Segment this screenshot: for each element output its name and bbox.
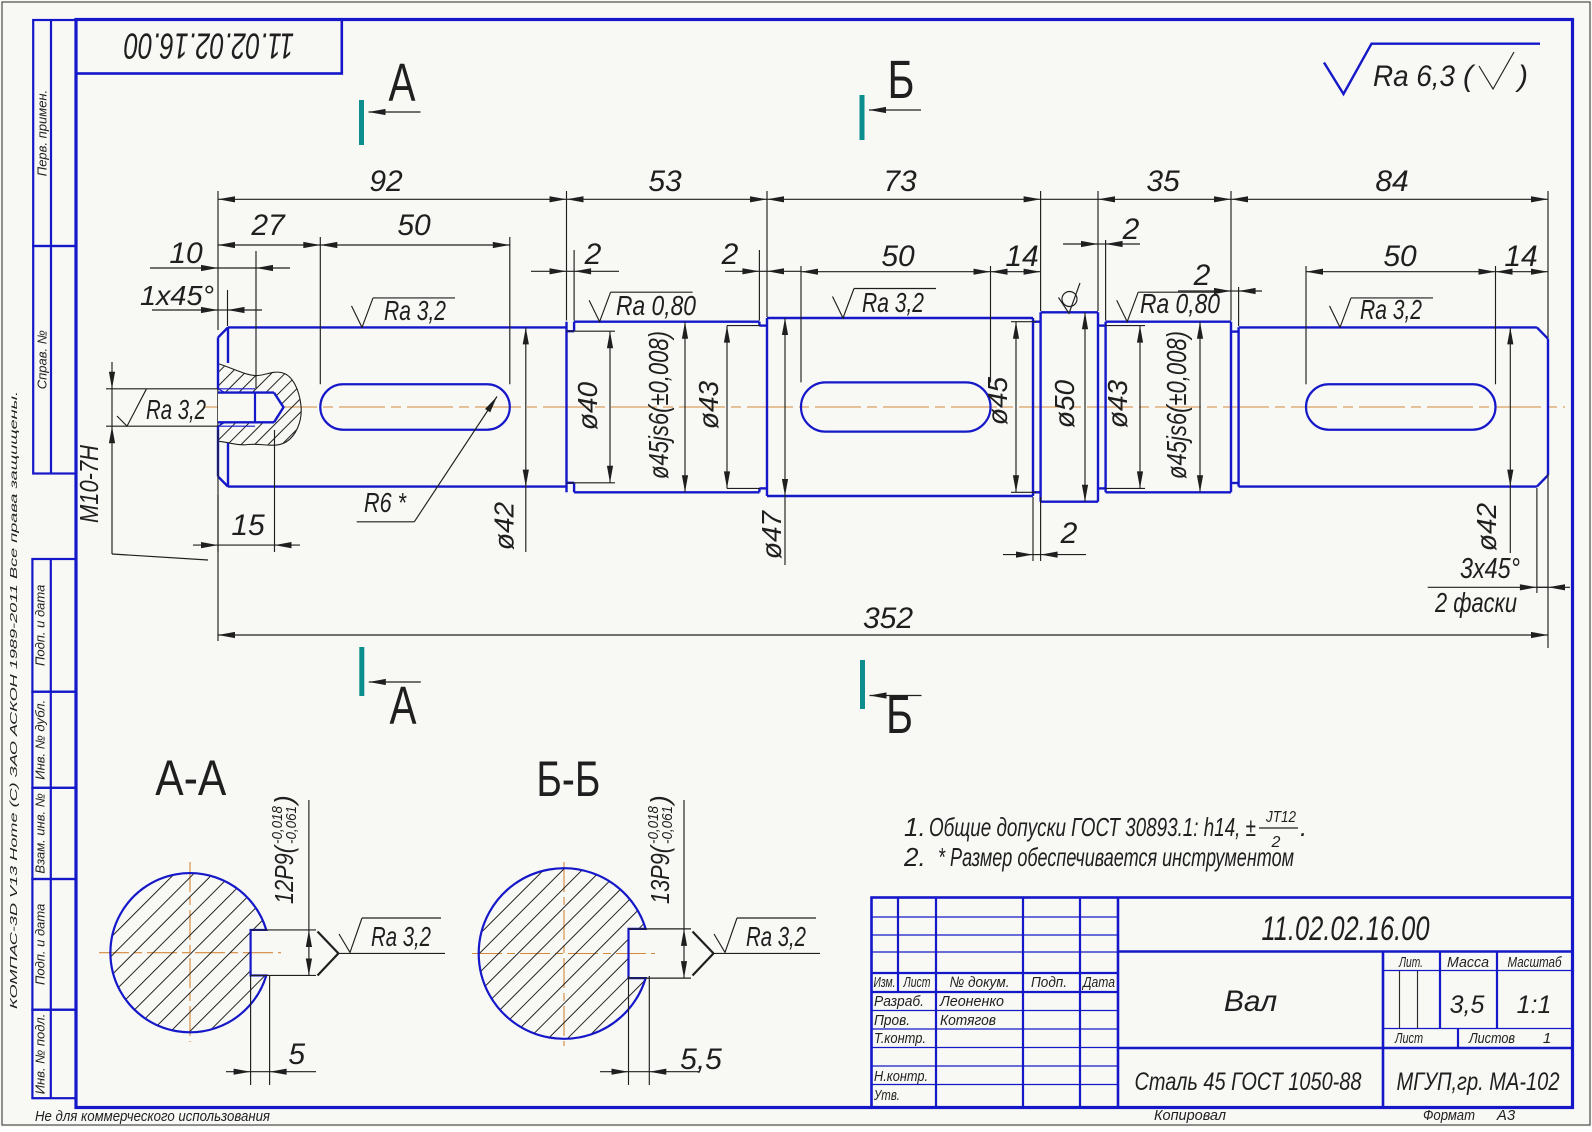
svg-text:Разраб.: Разраб. — [874, 993, 924, 1010]
svg-text:Б-Б: Б-Б — [536, 751, 600, 807]
svg-text:Ra 3,2: Ra 3,2 — [146, 394, 206, 425]
svg-text:84: 84 — [1375, 165, 1408, 198]
svg-text:М10-7Н: М10-7Н — [74, 445, 104, 523]
svg-text:2 фаски: 2 фаски — [1434, 587, 1517, 618]
svg-text:ø50: ø50 — [1049, 379, 1080, 428]
svg-text:2: 2 — [1060, 517, 1078, 550]
svg-text:50: 50 — [397, 209, 431, 242]
svg-text:1:1: 1:1 — [1517, 991, 1552, 1019]
svg-text:2: 2 — [1122, 213, 1140, 246]
svg-text:МГУП,гр. МА-102: МГУП,гр. МА-102 — [1397, 1068, 1560, 1096]
svg-text:Масштаб: Масштаб — [1508, 954, 1562, 971]
svg-text:№ докум.: № докум. — [950, 974, 1010, 991]
svg-text:ø42: ø42 — [1471, 502, 1502, 551]
svg-text:15: 15 — [231, 509, 265, 542]
svg-text:2.: 2. — [903, 842, 926, 872]
svg-text:35: 35 — [1146, 165, 1180, 198]
svg-text:.: . — [1300, 812, 1307, 842]
svg-text:Ra 0,80: Ra 0,80 — [616, 290, 696, 321]
svg-text:Инв. № дубл.: Инв. № дубл. — [33, 700, 48, 780]
svg-text:14: 14 — [1504, 240, 1537, 273]
svg-text:Котягов: Котягов — [940, 1012, 996, 1029]
svg-text:Подп. и дата: Подп. и дата — [33, 585, 48, 666]
svg-text:14: 14 — [1005, 240, 1038, 273]
svg-text:Ra 3,2: Ra 3,2 — [384, 295, 446, 326]
svg-text:Подп.: Подп. — [1031, 974, 1067, 991]
svg-text:Копировал: Копировал — [1154, 1107, 1227, 1124]
svg-text:50: 50 — [881, 240, 915, 273]
svg-text:-0,061: -0,061 — [659, 806, 676, 844]
svg-text:53: 53 — [648, 165, 682, 198]
svg-text:ø47: ø47 — [756, 509, 787, 559]
svg-text:Ra 6,3: Ra 6,3 — [1373, 60, 1455, 93]
svg-text:Ra 3,2: Ra 3,2 — [1360, 294, 1422, 325]
svg-text:Масса: Масса — [1447, 954, 1489, 971]
svg-text:1: 1 — [1543, 1030, 1551, 1047]
svg-text:3x45°: 3x45° — [1460, 553, 1520, 585]
svg-text:Изм.: Изм. — [874, 974, 896, 991]
svg-text:ø45: ø45 — [982, 376, 1013, 425]
svg-text:1.: 1. — [904, 812, 926, 842]
svg-text:JT12: JT12 — [1265, 809, 1296, 826]
svg-text:2: 2 — [721, 238, 739, 271]
svg-text:2: 2 — [584, 238, 602, 271]
svg-text:А: А — [390, 676, 417, 736]
svg-text:352: 352 — [863, 602, 913, 635]
svg-text:Ra 3,2: Ra 3,2 — [746, 921, 806, 952]
svg-text:73: 73 — [883, 165, 917, 198]
svg-text:11.02.02.16.00: 11.02.02.16.00 — [1262, 910, 1430, 948]
svg-text:1x45°: 1x45° — [140, 280, 214, 311]
svg-text:R6 *: R6 * — [364, 487, 407, 518]
svg-text:Инв. № подл.: Инв. № подл. — [33, 1014, 48, 1095]
svg-text:10: 10 — [169, 237, 203, 270]
svg-text:3,5: 3,5 — [1450, 991, 1485, 1019]
svg-text:Подп. и дата: Подп. и дата — [33, 904, 48, 985]
svg-text:Перв. примен.: Перв. примен. — [35, 90, 50, 176]
svg-text:Общие допуски ГОСТ 30893.1: h1: Общие допуски ГОСТ 30893.1: h14, ± — [929, 812, 1256, 842]
svg-text:Т.контр.: Т.контр. — [874, 1030, 926, 1047]
svg-text:12P9(: 12P9( — [269, 844, 299, 904]
svg-text:Не для коммерческого использов: Не для коммерческого использования — [35, 1109, 270, 1125]
svg-text:А3: А3 — [1496, 1107, 1516, 1124]
svg-text:ø43: ø43 — [693, 380, 724, 429]
svg-text:Ra 3,2: Ra 3,2 — [371, 921, 431, 952]
svg-text:ø45js6(±0,008): ø45js6(±0,008) — [643, 331, 674, 479]
svg-text:11.02.02.16.00: 11.02.02.16.00 — [124, 26, 294, 67]
svg-text:ø40: ø40 — [572, 381, 603, 430]
svg-text:А: А — [389, 53, 416, 113]
svg-text:А-А: А-А — [155, 750, 227, 806]
svg-text:Леоненко: Леоненко — [939, 993, 1004, 1010]
svg-text:-0,061: -0,061 — [283, 806, 300, 844]
svg-text:Справ. №: Справ. № — [35, 330, 50, 389]
svg-text:* Размер обеспечивается инстру: * Размер обеспечивается инструментом — [938, 842, 1294, 872]
svg-text:5: 5 — [288, 1038, 305, 1071]
svg-text:Б: Б — [886, 685, 913, 745]
svg-text:ø45js6(±0,008): ø45js6(±0,008) — [1161, 331, 1192, 479]
svg-text:Дата: Дата — [1081, 974, 1115, 991]
svg-text:5,5: 5,5 — [680, 1043, 722, 1076]
svg-text:Пров.: Пров. — [874, 1012, 910, 1029]
svg-text:Взам. инв. №: Взам. инв. № — [33, 793, 48, 873]
svg-text:КОМПАС-3D V13 Home (С) ЗАО АСК: КОМПАС-3D V13 Home (С) ЗАО АСКОН 1989-20… — [8, 391, 20, 1009]
svg-text:92: 92 — [369, 165, 403, 198]
svg-text:13P9(: 13P9( — [645, 844, 675, 904]
svg-text:Ra 3,2: Ra 3,2 — [862, 287, 924, 318]
svg-text:50: 50 — [1383, 240, 1417, 273]
svg-text:ø43: ø43 — [1102, 379, 1133, 428]
svg-text:Листов: Листов — [1468, 1030, 1515, 1047]
svg-text:Вал: Вал — [1224, 985, 1277, 1018]
svg-text:Лит.: Лит. — [1398, 954, 1423, 971]
svg-text:Б: Б — [888, 50, 915, 110]
svg-text:27: 27 — [250, 209, 286, 242]
svg-text:Формат: Формат — [1423, 1107, 1475, 1124]
svg-text:Лист: Лист — [1394, 1030, 1423, 1047]
svg-text:Ra 0,80: Ra 0,80 — [1140, 288, 1220, 319]
svg-text:Сталь 45 ГОСТ 1050-88: Сталь 45 ГОСТ 1050-88 — [1135, 1068, 1362, 1096]
svg-text:Н.контр.: Н.контр. — [874, 1068, 928, 1085]
svg-text:Лист: Лист — [903, 974, 931, 991]
svg-text:ø42: ø42 — [489, 501, 520, 550]
svg-text:Утв.: Утв. — [873, 1087, 900, 1104]
